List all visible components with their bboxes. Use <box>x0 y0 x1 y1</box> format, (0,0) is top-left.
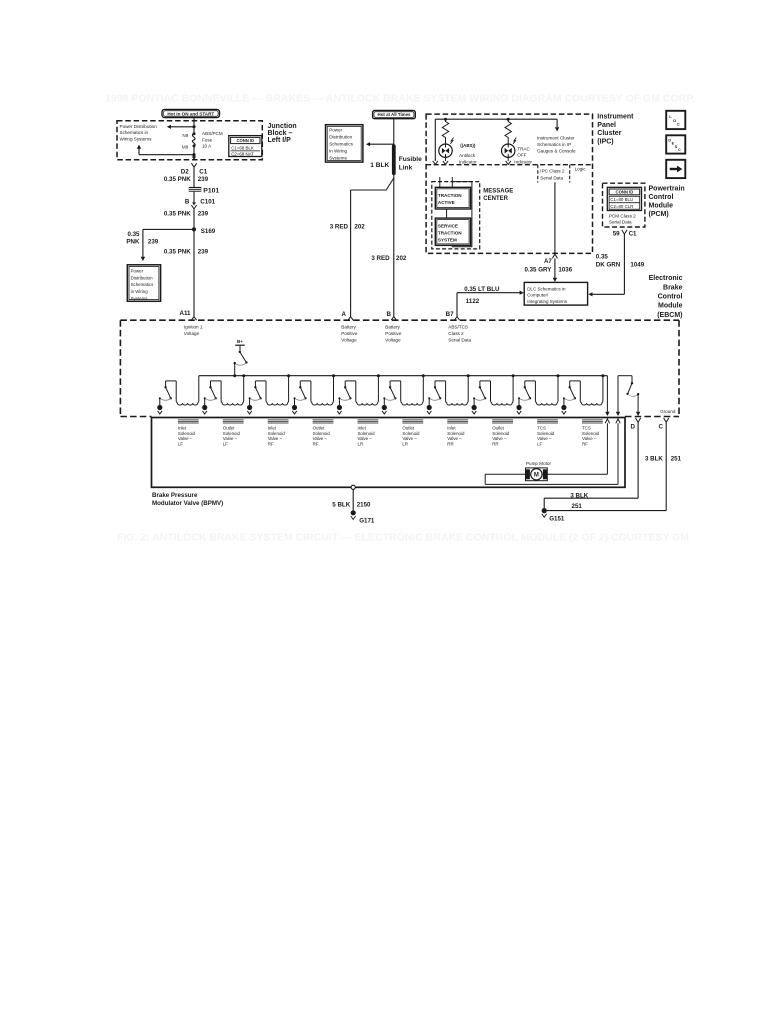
svg-text:B: B <box>387 311 392 318</box>
svg-text:M: M <box>534 473 539 479</box>
svg-text:Valve –: Valve – <box>268 436 283 441</box>
PCM CONN ID table: C1=80 BLU / C2=80 CLR <box>607 187 641 210</box>
svg-text:Voltage: Voltage <box>385 338 401 343</box>
svg-text:DLC Schematics in: DLC Schematics in <box>527 286 566 291</box>
svg-text:Valve –: Valve – <box>178 436 193 441</box>
connector P101 <box>189 187 202 192</box>
pin A7 of IPC <box>552 254 557 258</box>
svg-text:RF: RF <box>313 442 319 447</box>
svg-text:0.35 LT BLU: 0.35 LT BLU <box>464 286 500 293</box>
svg-text:Power: Power <box>131 268 144 273</box>
svg-text:D: D <box>631 423 636 430</box>
CONN ID table (junction block): C1=68 BLK / C2=68 NAT <box>229 136 262 157</box>
svg-text:Panel: Panel <box>597 122 616 129</box>
solenoid driver 4 (Outlet solenoid valve RF) <box>332 374 335 377</box>
svg-text:Outlet: Outlet <box>402 425 414 430</box>
svg-text:Left I/P: Left I/P <box>268 137 292 144</box>
svg-text:O: O <box>673 118 676 123</box>
svg-text:Solenoid: Solenoid <box>223 431 241 436</box>
svg-text:M9: M9 <box>182 144 189 149</box>
svg-text:0.35: 0.35 <box>596 253 609 260</box>
solenoid driver 5 (Inlet solenoid valve LR) <box>377 374 380 377</box>
solenoid driver 8 (Outlet solenoid valve RR) <box>512 374 515 377</box>
solenoid coil Outlet solenoid valve LR <box>402 419 423 421</box>
svg-text:Inlet: Inlet <box>178 425 187 430</box>
wire 5 BLK 2150 (BPMV to G171) <box>351 485 355 489</box>
svg-text:LF: LF <box>178 442 183 447</box>
arrow to power distribution schematics <box>171 126 195 128</box>
display box SERVICE TRACTION SYSTEM <box>435 218 470 245</box>
svg-text:Solenoid: Solenoid <box>447 431 465 436</box>
pin 59 of PCM connector C1 <box>622 230 627 234</box>
svg-text:202: 202 <box>396 255 407 262</box>
svg-text:LR: LR <box>402 442 408 447</box>
svg-text:Class 2: Class 2 <box>448 331 464 336</box>
svg-text:IPC Class 2: IPC Class 2 <box>540 169 565 174</box>
pin C of EBCM <box>664 418 669 422</box>
svg-text:Indicator: Indicator <box>514 160 532 165</box>
junction block dashed box <box>117 121 262 160</box>
svg-text:S169: S169 <box>201 228 216 235</box>
svg-text:Solenoid: Solenoid <box>582 431 600 436</box>
solenoid driver 9 (TCS solenoid valve LF) <box>557 374 560 377</box>
svg-text:A7: A7 <box>544 258 552 265</box>
wire 3 BLK 251 (pin C to G151) <box>665 422 667 510</box>
svg-text:239: 239 <box>198 176 209 183</box>
svg-text:Distribution: Distribution <box>329 135 352 140</box>
solenoid coil Outlet solenoid valve LF <box>223 419 244 421</box>
svg-text:Hot at All Times: Hot at All Times <box>378 112 411 117</box>
svg-text:ABS/PCM: ABS/PCM <box>202 131 223 136</box>
wire: pump switch to pin D <box>637 394 639 412</box>
svg-text:((ABS)): ((ABS)) <box>460 143 476 148</box>
svg-text:Solenoid: Solenoid <box>492 431 510 436</box>
svg-text:Control: Control <box>649 194 674 201</box>
svg-text:Instrument: Instrument <box>597 113 634 120</box>
svg-text:Serial Data: Serial Data <box>609 220 632 225</box>
svg-text:Fusible: Fusible <box>399 156 422 163</box>
svg-text:Brake Pressure: Brake Pressure <box>152 492 198 499</box>
svg-text:1122: 1122 <box>466 298 480 305</box>
svg-text:(EBCM): (EBCM) <box>657 312 682 319</box>
wire: pump motor return into EBCM <box>617 376 619 412</box>
svg-text:Solenoid: Solenoid <box>402 431 420 436</box>
svg-text:Solenoid: Solenoid <box>537 431 555 436</box>
svg-text:1036: 1036 <box>558 267 572 274</box>
svg-text:Block –: Block – <box>268 130 293 137</box>
solenoid coil Inlet solenoid valve LF <box>178 419 199 421</box>
svg-text:C: C <box>678 148 681 152</box>
svg-text:C: C <box>677 122 680 127</box>
svg-text:Ground: Ground <box>660 409 676 414</box>
svg-text:Integrating Systems: Integrating Systems <box>527 299 568 304</box>
resistor (TRAC OFF indicator) <box>505 119 511 144</box>
svg-text:Valve –: Valve – <box>313 436 328 441</box>
ground G151 <box>542 508 547 513</box>
solenoid coil TCS solenoid valve RF <box>582 419 603 421</box>
svg-text:3 RED: 3 RED <box>330 224 349 231</box>
svg-text:SYSTEM: SYSTEM <box>438 237 457 242</box>
pin B of connector C101 <box>193 192 195 203</box>
box: Power Distribution Schematics in Wiring Systems (middle) <box>326 125 363 162</box>
message center logic wires <box>439 177 441 187</box>
svg-text:Wiring Systems: Wiring Systems <box>120 136 153 141</box>
svg-text:Power Distribution: Power Distribution <box>120 124 158 129</box>
svg-text:Serial Data: Serial Data <box>448 338 471 343</box>
svg-text:C2=80 CLR: C2=80 CLR <box>610 204 633 209</box>
wire: pump motor - terminal loop <box>485 473 525 475</box>
solenoid driver 2 (Outlet solenoid valve LF) <box>242 374 245 377</box>
powertrain control module (PCM) dashed box <box>603 183 645 227</box>
svg-text:Outlet: Outlet <box>223 425 235 430</box>
svg-text:C: C <box>659 423 664 430</box>
svg-text:CENTER: CENTER <box>483 196 508 202</box>
solenoid driver 3 (Inlet solenoid valve RF) <box>287 374 290 377</box>
svg-text:Schematics: Schematics <box>131 282 154 287</box>
wire branch with up-arrow to power distribution note <box>139 154 194 156</box>
svg-text:239: 239 <box>148 238 159 245</box>
svg-text:Antilock: Antilock <box>459 153 476 158</box>
solenoid coil Inlet solenoid valve RR <box>447 419 468 421</box>
svg-text:OFF: OFF <box>517 153 526 158</box>
svg-text:C1=80 BLU: C1=80 BLU <box>610 197 633 202</box>
svg-text:5 BLK: 5 BLK <box>332 501 350 508</box>
wire 3 RED 202 branch to pin A <box>351 178 394 190</box>
svg-text:C2=68 NAT: C2=68 NAT <box>231 152 254 157</box>
svg-text:Schematics: Schematics <box>329 142 353 147</box>
svg-text:Schematics in IP: Schematics in IP <box>537 142 571 147</box>
svg-text:Inlet: Inlet <box>447 425 456 430</box>
svg-text:Distribution: Distribution <box>131 275 154 280</box>
svg-text:B: B <box>185 199 190 206</box>
svg-text:ACTIVE: ACTIVE <box>438 200 455 205</box>
svg-text:LF: LF <box>537 442 542 447</box>
svg-text:Link: Link <box>399 164 413 171</box>
svg-text:Valve –: Valve – <box>447 436 462 441</box>
svg-text:Positive: Positive <box>341 331 358 336</box>
pin D of EBCM <box>636 418 641 422</box>
svg-text:Valve –: Valve – <box>223 436 238 441</box>
electronic brake control module dashed box <box>120 319 679 321</box>
svg-text:239: 239 <box>198 211 209 218</box>
svg-text:2150: 2150 <box>357 501 371 508</box>
svg-text:Schematics in: Schematics in <box>120 130 149 135</box>
wire: IPC class 2 serial data to A7 <box>554 182 556 253</box>
svg-text:3 BLK: 3 BLK <box>570 492 588 499</box>
label box "Hot in ON and START" <box>162 110 220 118</box>
svg-text:CONN ID: CONN ID <box>616 190 634 195</box>
svg-text:Junction: Junction <box>268 123 297 130</box>
message center dashed box <box>432 182 480 249</box>
svg-text:Systems: Systems <box>329 156 347 161</box>
svg-text:Voltage: Voltage <box>341 338 357 343</box>
svg-text:Battery: Battery <box>385 324 400 329</box>
svg-text:Inlet: Inlet <box>358 425 367 430</box>
svg-text:TRACTION: TRACTION <box>438 231 462 236</box>
svg-text:Serial Data: Serial Data <box>540 176 563 181</box>
node: branch to power distribution (lower) <box>192 153 195 156</box>
solenoid coil Inlet solenoid valve RF <box>268 419 289 421</box>
svg-text:PCM Class 2: PCM Class 2 <box>609 213 636 218</box>
svg-text:LF: LF <box>223 442 228 447</box>
svg-text:Battery: Battery <box>341 324 356 329</box>
svg-text:Pump Motor: Pump Motor <box>526 461 551 466</box>
svg-text:RR: RR <box>492 442 498 447</box>
svg-text:G171: G171 <box>359 517 375 524</box>
solenoid driver 6 (Outlet solenoid valve LR) <box>422 374 425 377</box>
splice S169 <box>192 227 196 231</box>
wire below fuse <box>193 146 195 157</box>
wire 0.35 GRY 1036 <box>554 258 556 278</box>
solenoid coil Outlet solenoid valve RR <box>492 419 513 421</box>
svg-text:(PCM): (PCM) <box>649 211 669 218</box>
svg-text:RF: RF <box>268 442 274 447</box>
svg-text:Solenoid: Solenoid <box>178 431 196 436</box>
svg-text:RF: RF <box>582 442 588 447</box>
svg-text:Module: Module <box>658 303 683 310</box>
svg-text:LR: LR <box>358 442 364 447</box>
svg-text:DK GRN: DK GRN <box>596 261 621 268</box>
svg-text:Valve –: Valve – <box>537 436 552 441</box>
svg-text:N9: N9 <box>182 133 188 138</box>
svg-text:(IPC): (IPC) <box>597 139 613 146</box>
svg-text:in Wiring: in Wiring <box>131 289 149 294</box>
svg-text:A: A <box>342 311 347 318</box>
svg-text:TCS: TCS <box>582 425 591 430</box>
svg-text:Gauges & Console: Gauges & Console <box>537 149 576 154</box>
svg-text:Voltage: Voltage <box>184 331 200 336</box>
svg-text:G151: G151 <box>549 515 565 522</box>
solenoid driver 7 (Inlet solenoid valve RR) <box>467 374 470 377</box>
solenoid coil TCS solenoid valve LF <box>537 419 558 421</box>
node: junction to power distribution arrow <box>192 125 195 128</box>
arrow to power distribution schematics (middle) <box>370 143 394 145</box>
EBCM internal B+ bus <box>199 375 608 377</box>
arrow to instrument cluster schematics note <box>556 119 558 127</box>
svg-text:3 BLK: 3 BLK <box>645 456 663 463</box>
svg-text:Valve –: Valve – <box>358 436 373 441</box>
svg-text:FIG. 2: ANTILOCK BRAKE SYSTEM: FIG. 2: ANTILOCK BRAKE SYSTEM CIRCUIT — … <box>117 532 689 544</box>
box: Power Distribution Schematics in Wiring Systems (left) <box>127 265 160 302</box>
svg-text:C1: C1 <box>629 231 637 238</box>
svg-text:D2: D2 <box>181 169 189 176</box>
svg-text:Electronic: Electronic <box>649 275 683 282</box>
svg-text:Computer/: Computer/ <box>527 293 549 298</box>
svg-text:Outlet: Outlet <box>492 425 504 430</box>
svg-text:Instrument Cluster: Instrument Cluster <box>537 135 575 140</box>
svg-text:59: 59 <box>613 231 620 238</box>
svg-text:Brake: Brake <box>663 284 683 291</box>
node (lamp 2 feed) <box>507 118 510 121</box>
svg-text:Indicator: Indicator <box>459 159 477 164</box>
svg-text:Valve –: Valve – <box>582 436 597 441</box>
connector leaving junction block (down arrow + receptacle) <box>192 156 196 160</box>
node (lamp 1 feed) <box>444 118 447 121</box>
svg-text:Solenoid: Solenoid <box>358 431 376 436</box>
svg-text:Inlet: Inlet <box>268 425 277 430</box>
svg-text:Control: Control <box>658 294 683 301</box>
svg-text:Hot in ON and START: Hot in ON and START <box>167 112 214 117</box>
ground G171 <box>351 510 356 515</box>
wire from Hot at All Times <box>393 119 395 147</box>
instrument panel cluster (IPC) dashed box <box>426 114 592 253</box>
svg-text:10 A: 10 A <box>202 143 212 148</box>
svg-text:TRACTION: TRACTION <box>438 193 462 198</box>
svg-text:1998 PONTIAC BONNEVILLE — BRAK: 1998 PONTIAC BONNEVILLE — BRAKES — ANTIL… <box>105 93 695 105</box>
svg-text:Powertrain: Powertrain <box>649 185 685 192</box>
svg-text:TCS: TCS <box>537 425 546 430</box>
svg-text:0.35 PNK: 0.35 PNK <box>164 211 191 218</box>
svg-text:TRAC: TRAC <box>517 146 530 151</box>
svg-text:C1: C1 <box>199 169 207 176</box>
svg-text:3 RED: 3 RED <box>371 255 390 262</box>
svg-text:239: 239 <box>198 248 209 255</box>
svg-text:251: 251 <box>671 456 682 463</box>
svg-text:Solenoid: Solenoid <box>268 431 286 436</box>
label box "Hot at All Times" <box>373 111 416 119</box>
svg-text:Systems: Systems <box>131 296 149 301</box>
fusible link (1 BLK) <box>392 146 396 173</box>
svg-text:Solenoid: Solenoid <box>313 431 331 436</box>
svg-text:0.35 GRY: 0.35 GRY <box>524 267 552 274</box>
IPC indicator sub-box divider <box>426 164 592 166</box>
display box TRACTION ACTIVE <box>435 187 470 209</box>
svg-text:Valve –: Valve – <box>402 436 417 441</box>
svg-text:202: 202 <box>354 224 365 231</box>
icon box DESC <box>666 135 685 153</box>
resistor (ABS indicator) <box>442 119 448 144</box>
wire: B+ bus to pump motor (feed) <box>606 376 608 412</box>
svg-text:B7: B7 <box>446 311 454 318</box>
svg-text:1 BLK: 1 BLK <box>370 162 389 169</box>
fuse ABS/PCM 10 A (terminals N9 / M9) <box>193 132 196 135</box>
svg-text:CONN ID: CONN ID <box>236 138 254 143</box>
svg-text:Cluster: Cluster <box>597 130 621 137</box>
solenoid coil Outlet solenoid valve RF <box>313 419 334 421</box>
svg-text:Valve –: Valve – <box>492 436 507 441</box>
lamp: TRAC OFF Indicator <box>502 144 515 157</box>
IPC Class 2 Serial Data cell <box>537 165 539 183</box>
flash mark (antilock lamp) <box>450 138 453 144</box>
svg-text:Logic: Logic <box>575 167 587 172</box>
solenoid driver 10 (TCS solenoid valve RF) <box>601 374 604 377</box>
svg-text:A11: A11 <box>179 310 191 317</box>
svg-text:Module: Module <box>649 203 674 210</box>
icon box forward arrow <box>666 160 685 178</box>
svg-text:1049: 1049 <box>630 261 644 268</box>
svg-text:C101: C101 <box>200 199 215 206</box>
icon box LOC <box>666 111 685 129</box>
svg-text:RR: RR <box>447 442 453 447</box>
pump motor driver switch <box>618 375 632 377</box>
svg-text:0.35 PNK: 0.35 PNK <box>164 176 191 183</box>
svg-text:B+: B+ <box>237 339 243 344</box>
solenoid driver 1 (Inlet solenoid valve LF) <box>198 376 200 402</box>
wire from Hot in ON and START into fuse <box>193 118 195 134</box>
flash mark (trac off lamp) <box>513 138 516 144</box>
svg-text:Outlet: Outlet <box>313 425 325 430</box>
svg-text:0.35 PNK: 0.35 PNK <box>164 248 191 255</box>
svg-text:PNK: PNK <box>126 238 140 245</box>
svg-text:Positive: Positive <box>385 331 402 336</box>
lamp: Antilock Indicator <box>439 144 452 157</box>
wire 3 RED 202 to pin B <box>393 173 395 316</box>
svg-text:Modulator Valve (BPMV): Modulator Valve (BPMV) <box>152 500 223 507</box>
svg-text:Fuse: Fuse <box>202 137 213 142</box>
svg-text:C1=68 BLK: C1=68 BLK <box>231 146 254 151</box>
svg-text:SERVICE: SERVICE <box>438 224 458 229</box>
wire 3 BLK 251 (pin D to G151) <box>637 422 639 498</box>
box: DLC Schematics in Computer/Integrating Systems <box>524 282 587 305</box>
svg-text:P101: P101 <box>203 187 219 194</box>
svg-text:ABS/TCS: ABS/TCS <box>448 324 468 329</box>
svg-text:0.35: 0.35 <box>127 231 140 238</box>
brake pressure modulator valve (BPMV) box <box>152 418 626 488</box>
svg-text:in Wiring: in Wiring <box>329 149 347 154</box>
wire: pump motor + terminal <box>547 473 607 475</box>
wire 0.35 LT BLU 1122 (B7 to DLC) <box>456 293 458 317</box>
svg-text:MESSAGE: MESSAGE <box>483 188 513 194</box>
IPC internal supply bus <box>435 118 557 120</box>
svg-text:251: 251 <box>572 503 583 510</box>
svg-text:Ignition 1: Ignition 1 <box>184 324 203 329</box>
solenoid coil Inlet solenoid valve LR <box>358 419 379 421</box>
wire 0.35 DK GRN 1049 <box>623 234 625 294</box>
wire branch 0.35 PNK 239 to power distribution box <box>143 228 194 230</box>
svg-text:Power: Power <box>329 128 342 133</box>
